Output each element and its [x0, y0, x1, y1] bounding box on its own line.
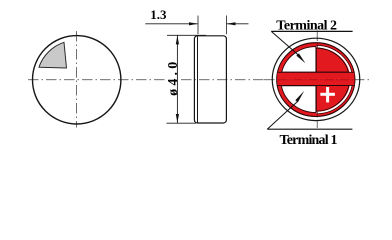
white separation channel arc (right half): [316, 47, 351, 113]
sound hole wedge: [39, 42, 67, 68]
plus sign: [320, 93, 335, 96]
center line (side view), broken around dim text: [136, 79, 165, 81]
band top edge: [278, 71, 355, 73]
Terminal 2 leader arrowhead: [296, 53, 305, 63]
rim inner edge arc (right half): [316, 45, 352, 113]
dimension dia 4.0 bottom arrow: [176, 114, 179, 123]
dimension dia 4.0 vertical line: [176, 35, 178, 123]
dimension dia 4.0 top extension line: [167, 34, 206, 36]
dimension 1.3 extension line right: [226, 16, 228, 35]
dimension 1.3 left line: [145, 23, 197, 25]
Terminal 1 leader arrowhead: [295, 91, 304, 102]
vertical center line (bottom view): [316, 31, 318, 129]
Terminal 1 overline: [267, 128, 352, 130]
band bottom edge: [278, 84, 355, 86]
center line trace over red ring (bottom): [316, 111, 318, 117]
terminal band (middle bar): [277, 73, 354, 85]
side view rim line: [197, 36, 199, 122]
svg-text:Terminal 1: Terminal 1: [280, 133, 338, 148]
bottom view outer circle: [272, 38, 360, 120]
Terminal 2 leader line: [271, 31, 298, 55]
svg-text:ø4.0: ø4.0: [166, 59, 181, 96]
dimension 1.3 right arrow: [227, 22, 236, 25]
dimension 1.3 left arrow: [189, 22, 198, 25]
terminal pad red disc: [277, 43, 355, 117]
Terminal 2 underline: [271, 30, 352, 32]
vertical center line (top view): [76, 31, 78, 128]
white cutout upper-left quarter: [282, 47, 316, 73]
terminal pad upper-right quarter: [316, 48, 348, 72]
side view body: [194, 36, 226, 123]
dimension 1.3 right line: [227, 23, 249, 25]
white cutout lower-left quarter: [281, 86, 316, 113]
horizontal center line (top view): [28, 79, 133, 81]
svg-text:1.3: 1.3: [150, 7, 167, 22]
top view circle (mic outline): [32, 36, 120, 124]
center line trace over red ring (top): [316, 43, 318, 50]
dimension 1.3 extension line left: [197, 16, 199, 35]
dimension dia 4.0 top arrow: [176, 35, 179, 44]
Terminal 1 leader line: [267, 102, 297, 130]
dimension dia 4.0 bottom extension line: [167, 122, 197, 124]
terminal pad lower-right quarter: [316, 86, 349, 112]
center line trace over band: [278, 79, 354, 81]
horizontal center line (bottom view): [264, 79, 371, 81]
